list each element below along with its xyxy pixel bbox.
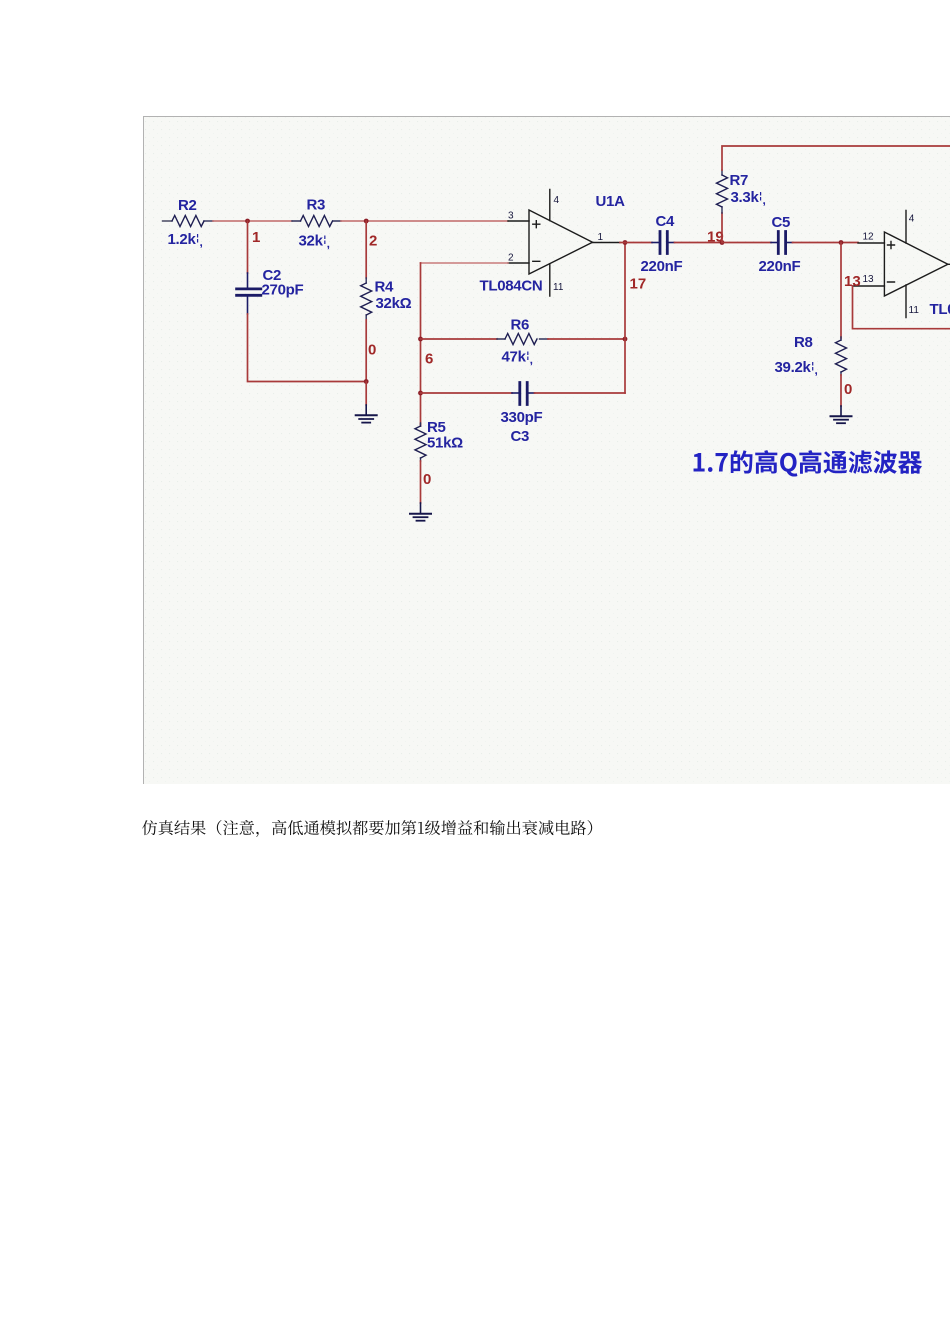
resistor R2	[172, 216, 213, 227]
wire right loop vertical node 17	[624, 242, 626, 393]
wire C2 bottom L to junction	[248, 314, 367, 382]
node 19 junction	[720, 240, 725, 245]
resistor R5	[415, 423, 426, 461]
ground 3	[831, 406, 852, 423]
wire feedback op2	[853, 286, 950, 329]
junction R6 right	[623, 337, 628, 342]
ground 2	[410, 503, 431, 521]
schematic capture panel	[143, 116, 950, 784]
title 1.7 high-Q high-pass filter (chinese)	[694, 450, 923, 476]
wire R6 row left	[421, 338, 498, 340]
resistor R8	[836, 337, 847, 375]
node 6 junction	[418, 337, 423, 342]
resistor R3	[292, 216, 341, 227]
resistor R6	[497, 334, 548, 345]
wire R7 bottom	[721, 213, 723, 243]
wire input to R2	[163, 220, 173, 222]
ground 1	[356, 405, 377, 423]
capacitor C4	[652, 232, 675, 254]
node 2 junction	[364, 219, 369, 224]
wire C2 branch top	[247, 221, 249, 273]
wire R6 row right	[548, 338, 625, 340]
wire C4 to node 19	[675, 242, 723, 244]
wire R5 top	[420, 424, 422, 426]
op-amp U1B triangle	[884, 232, 950, 296]
op-amp U1B input pin wires	[853, 243, 885, 286]
wire R7 top feedback	[722, 146, 950, 170]
resistor R4	[361, 278, 372, 320]
wire C3 row left	[421, 392, 513, 394]
capacitor C2	[237, 273, 261, 314]
capacitor C5	[771, 232, 793, 254]
wire R4 top	[365, 221, 367, 278]
wire to ground 1	[365, 382, 367, 406]
op-amp U1B power pin wires	[905, 211, 907, 318]
output junction node 17 top	[623, 240, 628, 245]
wire C3 row right	[535, 392, 626, 394]
wire R8 top	[840, 243, 842, 339]
wire R8 bottom	[840, 375, 842, 406]
wire output to C4	[620, 242, 652, 244]
wire node19 to C5	[722, 242, 771, 244]
junction C3 row left	[418, 391, 423, 396]
op-amp U1A input pin wires	[508, 221, 529, 263]
junction C2/R4	[364, 379, 369, 384]
wire C5 to op2	[793, 242, 859, 244]
wire R4 bottom	[365, 320, 367, 382]
junction R8 top	[839, 240, 844, 245]
op-amp U1A triangle	[529, 210, 593, 274]
wire R3 to node 2 to op-amp	[341, 220, 508, 222]
capacitor C3	[512, 383, 535, 405]
wire R2 to node 1 to R3	[213, 220, 292, 222]
node 1 junction	[245, 219, 250, 224]
wire R5 bottom	[420, 461, 422, 503]
op-amp U1A output pin wire	[593, 242, 621, 244]
wire minus input to node6 column	[421, 262, 509, 264]
resistor R7	[717, 170, 728, 213]
op-amp U1A power pin wires	[549, 190, 551, 297]
